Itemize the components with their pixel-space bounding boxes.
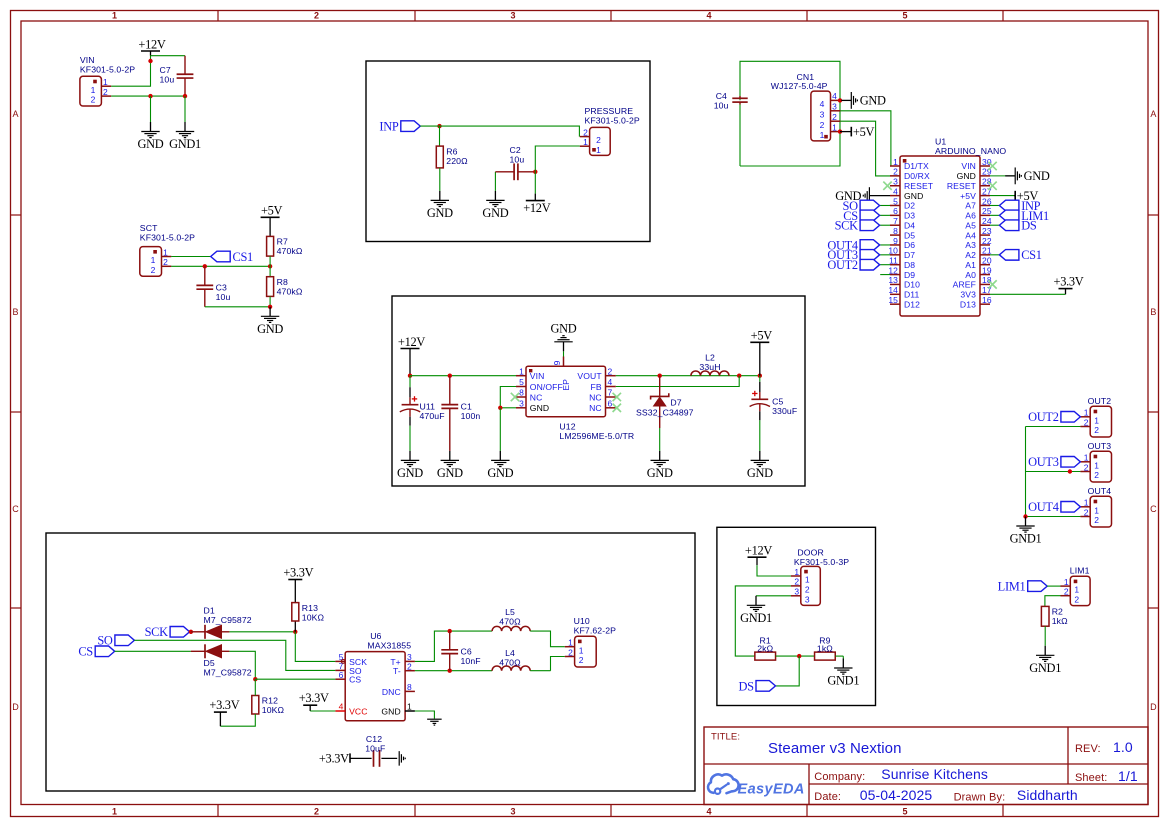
svg-text:10u: 10u xyxy=(160,75,175,85)
wire xyxy=(776,655,815,657)
svg-text:+3.3V: +3.3V xyxy=(209,698,239,712)
svg-text:VOUT: VOUT xyxy=(577,371,602,381)
svg-text:10uF: 10uF xyxy=(365,743,385,753)
IC U12 LM2596ME-5.0/TR xyxy=(516,357,634,442)
svg-text:470uF: 470uF xyxy=(420,411,445,421)
svg-text:2: 2 xyxy=(151,265,156,275)
svg-text:D5: D5 xyxy=(904,230,915,240)
no-connect pin 30 xyxy=(988,162,996,170)
svg-text:2: 2 xyxy=(1084,507,1089,517)
svg-text:GND1: GND1 xyxy=(169,137,201,151)
net flag OUT2 xyxy=(1028,410,1080,424)
resistor R13 xyxy=(292,603,325,623)
power +3.3V xyxy=(319,752,350,766)
svg-text:R8: R8 xyxy=(277,277,288,287)
svg-text:1: 1 xyxy=(103,77,108,87)
svg-text:KF301-5.0-2P: KF301-5.0-2P xyxy=(585,116,640,126)
wire xyxy=(151,55,186,57)
svg-text:10KΩ: 10KΩ xyxy=(302,612,325,622)
svg-text:GND: GND xyxy=(860,94,886,108)
svg-text:C1: C1 xyxy=(461,402,472,412)
svg-text:D: D xyxy=(1150,702,1157,712)
junction xyxy=(838,129,842,133)
svg-text:+12V: +12V xyxy=(745,543,772,557)
svg-text:470Ω: 470Ω xyxy=(499,658,521,668)
wire xyxy=(534,172,536,194)
svg-text:NC: NC xyxy=(589,403,602,413)
svg-text:2: 2 xyxy=(1094,425,1099,435)
net flag OUT2 xyxy=(827,258,879,272)
wire xyxy=(310,710,335,712)
svg-text:DOOR: DOOR xyxy=(797,547,823,557)
svg-text:CS1: CS1 xyxy=(1021,248,1042,262)
ground GND xyxy=(551,322,577,352)
svg-text:2: 2 xyxy=(568,647,573,657)
svg-text:7: 7 xyxy=(893,216,898,226)
svg-text:SCT: SCT xyxy=(140,223,158,233)
svg-text:10KΩ: 10KΩ xyxy=(262,705,285,715)
wire xyxy=(776,656,800,686)
svg-text:A: A xyxy=(1150,109,1156,119)
capacitor C5 xyxy=(750,376,798,451)
wire xyxy=(184,96,186,122)
svg-text:24: 24 xyxy=(982,216,992,226)
svg-text:1: 1 xyxy=(583,137,588,147)
ground GND xyxy=(138,122,164,151)
wire xyxy=(205,306,270,308)
svg-text:EP: EP xyxy=(561,379,571,391)
svg-text:470kΩ: 470kΩ xyxy=(277,246,303,256)
svg-text:1: 1 xyxy=(1084,498,1089,508)
svg-text:B: B xyxy=(13,307,19,317)
capacitor C12 xyxy=(350,734,397,767)
net flag OUT3 xyxy=(827,248,879,262)
resistor R7 xyxy=(267,236,303,256)
svg-text:LIM1: LIM1 xyxy=(1070,566,1090,576)
svg-text:ON/OFF: ON/OFF xyxy=(530,382,563,392)
wire xyxy=(880,244,890,246)
svg-text:GND1: GND1 xyxy=(1029,661,1061,675)
svg-text:GND: GND xyxy=(427,206,453,220)
svg-text:GND: GND xyxy=(257,322,283,336)
diode D1 M7_C95872 xyxy=(204,605,252,639)
capacitor U11 xyxy=(400,376,445,451)
svg-text:C7: C7 xyxy=(160,65,171,75)
svg-text:18: 18 xyxy=(982,275,992,285)
svg-text:GND: GND xyxy=(381,706,400,716)
ground GND1 xyxy=(740,596,772,625)
wire xyxy=(220,714,255,726)
svg-text:OUT4: OUT4 xyxy=(1088,486,1112,496)
wire xyxy=(551,657,565,671)
block frame door xyxy=(717,527,876,705)
block frame pressure xyxy=(366,61,650,242)
svg-text:30: 30 xyxy=(982,157,992,167)
wire xyxy=(254,679,256,695)
svg-text:D8: D8 xyxy=(904,260,915,270)
resistor R6 xyxy=(436,146,468,168)
svg-text:1: 1 xyxy=(151,255,156,265)
wire xyxy=(499,408,501,451)
svg-text:U11: U11 xyxy=(420,402,436,412)
wire xyxy=(880,254,890,256)
resistor R12 xyxy=(252,696,285,716)
svg-text:1: 1 xyxy=(1094,460,1099,470)
net flag LIM1 xyxy=(999,209,1049,223)
svg-text:R13: R13 xyxy=(302,603,318,613)
ground GND1 xyxy=(1010,517,1042,546)
wire xyxy=(1044,626,1046,646)
wire T+ xyxy=(415,631,492,661)
net flag DS xyxy=(999,219,1036,233)
svg-text:D: D xyxy=(12,702,19,712)
svg-text:1: 1 xyxy=(820,130,825,140)
svg-text:C2: C2 xyxy=(510,145,521,155)
wire xyxy=(990,293,1066,295)
wire xyxy=(415,711,435,719)
svg-text:220Ω: 220Ω xyxy=(446,156,468,166)
svg-text:2: 2 xyxy=(1084,417,1089,427)
svg-text:+3.3V: +3.3V xyxy=(299,691,329,705)
svg-text:D10: D10 xyxy=(904,280,920,290)
wire xyxy=(990,224,999,226)
svg-text:CS1: CS1 xyxy=(233,250,254,264)
junction xyxy=(203,264,207,268)
power +12V xyxy=(523,194,550,215)
svg-text:OUT2: OUT2 xyxy=(827,258,858,272)
svg-text:D7: D7 xyxy=(670,398,681,408)
svg-text:GND: GND xyxy=(904,191,923,201)
svg-text:D1: D1 xyxy=(204,605,215,615)
junction xyxy=(268,305,272,309)
junction +12V stem xyxy=(148,59,152,63)
power +5V xyxy=(750,329,772,376)
svg-text:A: A xyxy=(13,109,19,119)
svg-text:+3.3V: +3.3V xyxy=(319,752,349,766)
power +12V xyxy=(398,335,425,376)
junction xyxy=(408,374,412,378)
svg-text:05-04-2025: 05-04-2025 xyxy=(860,787,933,803)
svg-text:3V3: 3V3 xyxy=(960,290,976,300)
svg-text:A7: A7 xyxy=(965,201,976,211)
svg-text:REV:: REV: xyxy=(1075,743,1101,755)
inductor L4 xyxy=(492,648,530,671)
svg-text:R2: R2 xyxy=(1052,607,1063,617)
net flag OUT3 xyxy=(1028,455,1080,469)
svg-text:1: 1 xyxy=(568,638,573,648)
wire xyxy=(990,204,999,206)
svg-text:CS: CS xyxy=(78,645,93,659)
svg-text:R6: R6 xyxy=(446,146,457,156)
wire xyxy=(1045,596,1061,607)
svg-text:3: 3 xyxy=(510,807,515,817)
svg-text:DS: DS xyxy=(738,679,754,693)
svg-text:470kΩ: 470kΩ xyxy=(277,286,303,296)
wire xyxy=(535,146,580,172)
svg-text:2: 2 xyxy=(832,112,837,122)
wire xyxy=(990,254,999,256)
wire xyxy=(229,631,295,633)
wire xyxy=(880,264,890,266)
svg-text:INP: INP xyxy=(379,120,398,134)
svg-text:28: 28 xyxy=(982,177,992,187)
svg-text:2: 2 xyxy=(596,135,601,145)
svg-text:Company:: Company: xyxy=(814,771,865,783)
ground GND xyxy=(647,451,673,480)
junction xyxy=(437,124,441,128)
junction xyxy=(268,264,272,268)
connector VIN KF301-5.0-2P xyxy=(80,55,135,106)
svg-text:NC: NC xyxy=(530,392,543,402)
svg-text:1: 1 xyxy=(805,575,810,585)
wire xyxy=(1047,585,1060,587)
svg-text:1kΩ: 1kΩ xyxy=(1052,616,1068,626)
connector DOOR KF301-5.0-3P xyxy=(791,547,849,605)
svg-text:6: 6 xyxy=(608,398,613,408)
wire xyxy=(134,640,335,670)
svg-text:Date:: Date: xyxy=(814,791,841,803)
svg-text:ARDUINO_NANO: ARDUINO_NANO xyxy=(935,146,1006,156)
junction xyxy=(797,654,801,658)
ground GND xyxy=(397,451,423,480)
svg-text:Drawn By:: Drawn By: xyxy=(954,792,1006,804)
svg-text:L5: L5 xyxy=(505,607,515,617)
ground GND1 xyxy=(827,659,859,688)
svg-text:C: C xyxy=(1150,504,1157,514)
junction xyxy=(1068,469,1072,473)
svg-text:3: 3 xyxy=(832,102,837,112)
svg-text:VIN: VIN xyxy=(961,161,976,171)
net flag CS1 xyxy=(211,250,253,264)
junction xyxy=(253,677,257,681)
capacitor C4 xyxy=(714,91,748,110)
ground chassis U6 xyxy=(427,719,442,725)
svg-text:100n: 100n xyxy=(461,411,481,421)
svg-text:+3.3V: +3.3V xyxy=(1054,274,1084,288)
ground GND xyxy=(437,451,463,480)
wire xyxy=(171,265,270,267)
junction xyxy=(533,170,537,174)
svg-text:2: 2 xyxy=(1084,462,1089,472)
svg-text:1: 1 xyxy=(1094,415,1099,425)
svg-text:25: 25 xyxy=(982,206,992,216)
svg-text:PRESSURE: PRESSURE xyxy=(585,106,634,116)
wire xyxy=(880,224,890,226)
block frame DC-DC converter xyxy=(392,296,805,486)
svg-text:+12V: +12V xyxy=(398,335,425,349)
junction xyxy=(293,630,297,634)
wire xyxy=(229,651,255,679)
svg-text:1: 1 xyxy=(1084,453,1089,463)
svg-text:1: 1 xyxy=(1064,577,1069,587)
svg-text:GND1: GND1 xyxy=(740,611,772,625)
svg-text:L4: L4 xyxy=(505,648,515,658)
svg-text:2: 2 xyxy=(407,661,412,671)
power +5V xyxy=(261,204,283,237)
net flag OUT4 xyxy=(1028,500,1080,514)
capacitor C2 xyxy=(495,145,535,180)
connector CN1 WJ127-5.0-4P xyxy=(771,72,841,141)
svg-text:C: C xyxy=(12,504,19,514)
wire xyxy=(757,565,791,576)
wire xyxy=(835,655,843,657)
svg-text:2: 2 xyxy=(163,257,168,267)
net flag CS xyxy=(843,209,879,223)
svg-text:1: 1 xyxy=(112,11,117,21)
svg-text:1: 1 xyxy=(596,145,601,155)
power +12V xyxy=(745,543,772,565)
wire xyxy=(659,428,661,451)
diode D5 M7_C95872 xyxy=(204,644,252,677)
power +5V xyxy=(840,125,874,139)
svg-text:A6: A6 xyxy=(965,211,976,221)
ground GND xyxy=(487,451,513,480)
svg-text:+5V: +5V xyxy=(751,329,773,343)
svg-text:Sunrise Kitchens: Sunrise Kitchens xyxy=(881,766,988,782)
svg-text:1: 1 xyxy=(832,122,837,132)
resistor R2 xyxy=(1041,606,1068,626)
svg-text:GND1: GND1 xyxy=(827,674,859,688)
svg-text:470Ω: 470Ω xyxy=(499,617,521,627)
svg-text:1: 1 xyxy=(519,366,524,376)
svg-text:GND: GND xyxy=(957,171,976,181)
svg-text:+5V: +5V xyxy=(960,191,976,201)
svg-text:RESET: RESET xyxy=(904,181,934,191)
wire EP xyxy=(563,351,565,356)
svg-text:GND: GND xyxy=(397,466,423,480)
svg-text:A3: A3 xyxy=(965,240,976,250)
svg-text:D5: D5 xyxy=(204,658,215,668)
wire xyxy=(494,172,496,191)
svg-text:KF7.62-2P: KF7.62-2P xyxy=(574,626,617,636)
svg-text:OUT2: OUT2 xyxy=(1028,410,1059,424)
svg-text:A0: A0 xyxy=(965,270,976,280)
svg-text:4: 4 xyxy=(339,702,344,712)
svg-text:2: 2 xyxy=(893,167,898,177)
svg-text:U1: U1 xyxy=(935,137,946,147)
power +3.3V xyxy=(1054,274,1084,294)
svg-text:1: 1 xyxy=(1074,585,1079,595)
net flag INP xyxy=(999,199,1040,213)
power +12V xyxy=(138,37,165,55)
svg-text:2: 2 xyxy=(583,127,588,137)
svg-text:GND: GND xyxy=(1024,169,1050,183)
ground GND xyxy=(835,187,890,204)
junction xyxy=(448,669,452,673)
svg-text:KF301-5.0-2P: KF301-5.0-2P xyxy=(80,65,135,75)
svg-text:2: 2 xyxy=(314,807,319,817)
svg-text:KF301-5.0-2P: KF301-5.0-2P xyxy=(140,233,195,243)
svg-text:GND: GND xyxy=(482,206,508,220)
wire xyxy=(111,56,150,86)
svg-text:Siddharth: Siddharth xyxy=(1017,787,1078,803)
junction xyxy=(758,374,762,378)
no-connect pin 28 xyxy=(988,182,996,190)
svg-text:3: 3 xyxy=(794,587,799,597)
wire CN1 loop xyxy=(740,61,840,166)
connector U10 KF7.62-2P xyxy=(565,616,616,667)
wire FB xyxy=(616,376,739,387)
svg-text:14: 14 xyxy=(888,285,898,295)
junction xyxy=(183,94,187,98)
svg-text:GND: GND xyxy=(487,466,513,480)
wire stub D9 xyxy=(880,274,890,276)
svg-text:6: 6 xyxy=(893,206,898,216)
svg-text:11: 11 xyxy=(889,256,898,266)
capacitor C7 xyxy=(160,56,194,96)
svg-text:C5: C5 xyxy=(772,397,783,407)
net flag SCK xyxy=(835,219,880,233)
svg-text:AREF: AREF xyxy=(953,280,976,290)
svg-text:2: 2 xyxy=(1064,587,1069,597)
ground GND1 xyxy=(1029,646,1061,675)
svg-text:DNC: DNC xyxy=(382,687,401,697)
svg-text:2: 2 xyxy=(1094,470,1099,480)
block frame thermocouple xyxy=(46,533,695,791)
svg-text:Sheet:: Sheet: xyxy=(1075,772,1107,784)
svg-text:1: 1 xyxy=(579,645,584,655)
svg-text:5: 5 xyxy=(902,807,907,817)
svg-text:+12V: +12V xyxy=(138,37,165,51)
wire xyxy=(1026,426,1081,428)
svg-text:6: 6 xyxy=(339,670,344,680)
svg-text:33uH: 33uH xyxy=(699,362,720,372)
wire xyxy=(115,650,191,652)
wire +12V rail xyxy=(410,375,516,377)
no-connect U12 pin 6 xyxy=(613,404,621,412)
pin 1 marker CN1 xyxy=(824,135,828,139)
svg-text:10u: 10u xyxy=(714,100,729,110)
svg-text:C3: C3 xyxy=(216,283,227,293)
svg-text:4: 4 xyxy=(893,186,898,196)
svg-text:+12V: +12V xyxy=(523,201,550,215)
wire xyxy=(269,296,271,306)
wire xyxy=(269,256,271,277)
wire xyxy=(150,96,152,122)
power +3.3V xyxy=(209,698,239,726)
svg-text:U12: U12 xyxy=(559,421,575,431)
svg-text:5: 5 xyxy=(902,11,907,21)
net flag SCK xyxy=(145,625,190,639)
svg-text:D11: D11 xyxy=(904,290,920,300)
wire xyxy=(739,105,741,167)
svg-text:D2: D2 xyxy=(904,201,915,211)
svg-text:KF301-5.0-3P: KF301-5.0-3P xyxy=(794,557,849,567)
svg-text:23: 23 xyxy=(982,226,992,236)
svg-text:T-: T- xyxy=(393,666,401,676)
wire xyxy=(111,95,185,97)
svg-text:SCK: SCK xyxy=(145,625,169,639)
svg-text:1: 1 xyxy=(91,85,96,95)
ground GND xyxy=(257,307,283,336)
junction xyxy=(448,629,452,633)
net flag OUT4 xyxy=(827,238,879,252)
svg-text:4: 4 xyxy=(706,807,711,817)
net flag DS xyxy=(738,679,775,693)
ground chassis C12 xyxy=(399,751,405,766)
junction xyxy=(148,94,152,98)
svg-text:1kΩ: 1kΩ xyxy=(817,644,833,654)
junction xyxy=(838,98,842,102)
svg-text:4: 4 xyxy=(706,11,711,21)
svg-text:13: 13 xyxy=(888,275,898,285)
net flag SO xyxy=(843,199,880,213)
svg-text:1: 1 xyxy=(1094,505,1099,515)
svg-text:LIM1: LIM1 xyxy=(998,580,1026,594)
ground GND xyxy=(482,191,508,220)
svg-text:3: 3 xyxy=(510,11,515,21)
svg-text:A1: A1 xyxy=(965,260,976,270)
